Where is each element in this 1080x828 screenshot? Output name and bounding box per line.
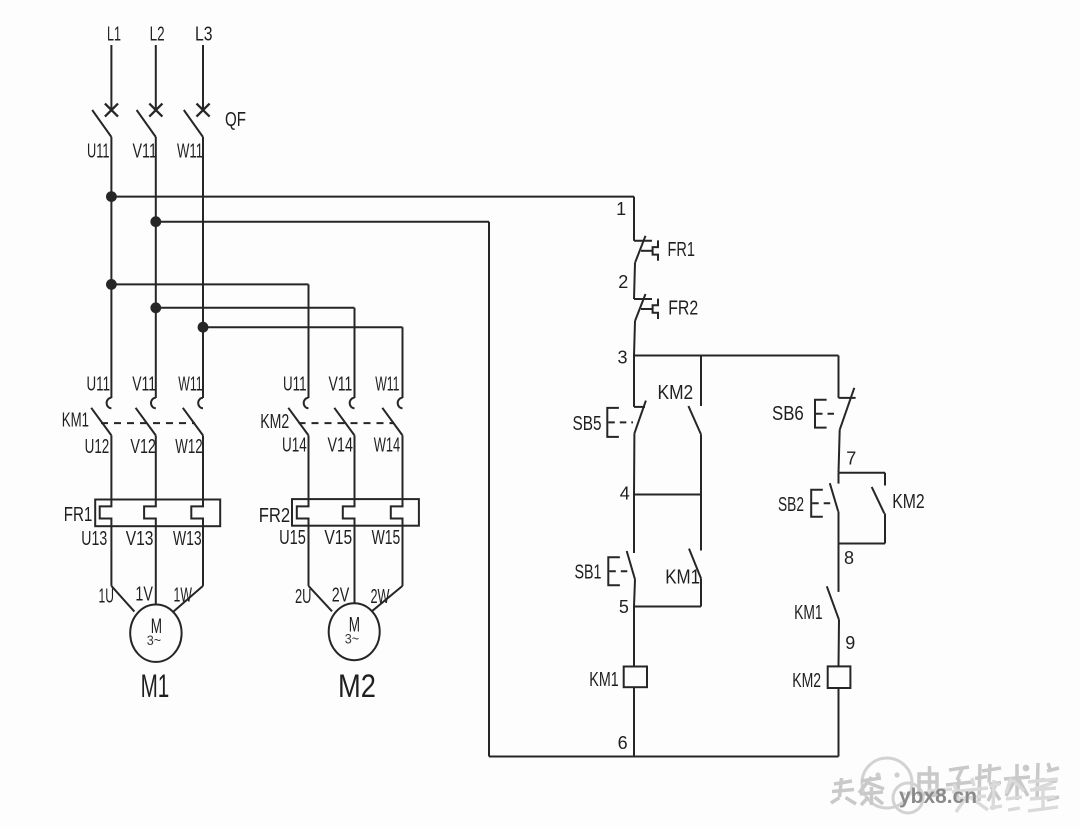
svg-text:KM1: KM1 bbox=[665, 566, 700, 588]
svg-text:U15: U15 bbox=[279, 527, 306, 549]
junction dot B2 bbox=[150, 302, 161, 313]
svg-text:3~: 3~ bbox=[345, 630, 359, 646]
watermark logo circles bbox=[862, 758, 912, 808]
svg-text:W15: W15 bbox=[372, 527, 401, 549]
svg-text:W11: W11 bbox=[375, 374, 399, 396]
push button SB2 NO bbox=[838, 473, 840, 484]
svg-text:1U: 1U bbox=[99, 585, 114, 607]
svg-text:1: 1 bbox=[616, 199, 626, 219]
thermal relay FR2 heater box bbox=[292, 499, 419, 526]
svg-text:2V: 2V bbox=[332, 584, 350, 606]
svg-text:9: 9 bbox=[845, 633, 855, 653]
push button SB1 NO bbox=[627, 551, 635, 579]
wire FR2 to node 3 bbox=[634, 321, 635, 356]
thermal relay FR1 heater box bbox=[95, 500, 220, 527]
svg-text:SB5: SB5 bbox=[573, 413, 602, 435]
watermark word dianzijishukong bbox=[919, 766, 943, 796]
svg-text:W11: W11 bbox=[177, 141, 203, 163]
svg-text:SB6: SB6 bbox=[772, 403, 804, 425]
wire KM1 coil to bottom rail bbox=[633, 687, 635, 756]
FR1 heater element 2 bbox=[144, 500, 156, 527]
wire SB1 to node 5 bbox=[634, 579, 635, 606]
svg-text:V11: V11 bbox=[133, 141, 157, 163]
svg-text:L2: L2 bbox=[150, 24, 165, 46]
junction dot A1 bbox=[106, 191, 117, 202]
svg-text:U12: U12 bbox=[85, 436, 110, 458]
watermark word shiyanshi overlay bbox=[927, 789, 952, 791]
svg-text:U11: U11 bbox=[87, 141, 110, 163]
svg-text:2W: 2W bbox=[371, 586, 390, 608]
wire SB5 to node 4 bbox=[633, 433, 635, 494]
node 3 bus bbox=[634, 355, 839, 357]
contactor KM2 main contact pole 2 bbox=[350, 398, 355, 409]
svg-text:6: 6 bbox=[618, 733, 628, 753]
svg-text:M2: M2 bbox=[338, 668, 376, 704]
junction dot A2 bbox=[106, 279, 117, 290]
wire tap to KM2 phase C bbox=[203, 326, 403, 328]
wire KM2 pole1 to FR2 bbox=[308, 435, 310, 499]
wire FR2 to motor M2 lead 2W bbox=[402, 526, 404, 586]
contactor KM1 main contact pole 1 bbox=[107, 398, 112, 409]
svg-text:2U: 2U bbox=[295, 586, 312, 608]
contactor KM1 main contact pole 3 bbox=[198, 398, 203, 409]
wire neutral return to bottom rail bbox=[156, 221, 489, 223]
SB1 actuator bbox=[608, 557, 620, 585]
push button SB6 NC bbox=[839, 397, 856, 399]
wire KM2 pole3 to FR2 bbox=[402, 435, 404, 499]
wire node3 to SB6 bbox=[838, 356, 840, 398]
svg-text:V15: V15 bbox=[324, 527, 352, 549]
wire FR1 to motor M1 lead 1W bbox=[202, 526, 204, 586]
svg-text:7: 7 bbox=[846, 448, 856, 468]
thermal relay FR1 NC contact bbox=[634, 240, 652, 242]
wire phase C vertical to KM1 bbox=[202, 137, 204, 398]
FR1 heater element 1 bbox=[100, 500, 112, 527]
svg-text:5: 5 bbox=[619, 597, 629, 617]
svg-text:ybx8.cn: ybx8.cn bbox=[899, 785, 977, 808]
FR2 heater element 2 bbox=[343, 500, 355, 527]
contact KM2 auxiliary NO (parallel SB5) bbox=[700, 356, 702, 407]
svg-text:1W: 1W bbox=[174, 584, 192, 606]
svg-text:V11: V11 bbox=[132, 374, 156, 396]
SB6 actuator bbox=[815, 400, 827, 428]
svg-text:1V: 1V bbox=[135, 583, 153, 605]
motor M2 circle bbox=[329, 603, 380, 660]
contact KM1 auxiliary NO (parallel SB1) bbox=[700, 495, 702, 551]
svg-text:KM2: KM2 bbox=[892, 491, 924, 513]
svg-text:4: 4 bbox=[620, 484, 630, 504]
junction dot C1 bbox=[198, 322, 209, 333]
FR2 heater element 3 bbox=[391, 500, 403, 527]
svg-text:3~: 3~ bbox=[147, 632, 161, 648]
node 4 bus bbox=[634, 494, 701, 496]
parallel group bottom bar bbox=[839, 543, 886, 545]
wire phase A vertical to KM1 bbox=[110, 137, 112, 398]
contactor KM1 main contact pole 2 bbox=[151, 398, 156, 409]
svg-text:KM1: KM1 bbox=[589, 669, 618, 691]
wire FR1 to motor M1 lead 1U bbox=[110, 526, 112, 586]
bottom rail bbox=[489, 756, 839, 758]
svg-text:U11: U11 bbox=[87, 374, 111, 396]
KM1 mechanical linkage dashed bbox=[101, 422, 195, 424]
motor M1 circle bbox=[130, 605, 181, 662]
svg-text:W14: W14 bbox=[374, 435, 401, 457]
svg-text:KM1: KM1 bbox=[62, 410, 89, 432]
wire KM2 coil to bottom rail bbox=[838, 688, 840, 757]
wire FR1 to motor M1 lead 1V bbox=[155, 526, 157, 604]
circuit breaker QF pole 1 bbox=[110, 45, 112, 110]
contactor coil KM1 bbox=[624, 667, 647, 688]
svg-text:3: 3 bbox=[618, 347, 628, 367]
SB2 actuator bbox=[811, 490, 823, 517]
KM2 mechanical linkage dashed bbox=[299, 422, 395, 424]
push button SB5 NC bbox=[634, 406, 645, 408]
wire bus to control circuit node 1 bbox=[111, 196, 634, 198]
contactor KM2 main contact pole 1 bbox=[304, 398, 309, 409]
svg-text:W13: W13 bbox=[173, 528, 202, 550]
FR2 heater element 1 bbox=[297, 500, 309, 527]
svg-text:L1: L1 bbox=[107, 24, 121, 46]
svg-text:V13: V13 bbox=[126, 528, 154, 550]
wire KM1 pole2 to FR1 bbox=[155, 435, 157, 499]
svg-text:2: 2 bbox=[618, 272, 628, 292]
svg-text:V14: V14 bbox=[328, 435, 354, 457]
svg-text:W12: W12 bbox=[175, 436, 202, 458]
svg-text:V11: V11 bbox=[329, 374, 353, 396]
svg-text:U14: U14 bbox=[282, 435, 307, 457]
SB5 actuator bbox=[607, 408, 619, 437]
wire node3 to SB5 bbox=[633, 356, 635, 407]
junction dot B1 bbox=[150, 216, 161, 227]
wire FR2 to motor M2 lead 2U bbox=[308, 526, 310, 586]
node 5 bus bbox=[634, 606, 701, 608]
svg-text:8: 8 bbox=[844, 548, 854, 568]
wire FR2 to motor M2 lead 2V bbox=[354, 526, 356, 604]
svg-text:KM2: KM2 bbox=[658, 382, 694, 404]
wire FR1 to FR2 bbox=[634, 263, 635, 299]
svg-text:KM2: KM2 bbox=[792, 670, 821, 692]
svg-text:U13: U13 bbox=[81, 528, 107, 550]
wire SB6 to node 7 bbox=[839, 430, 840, 473]
svg-text:FR2: FR2 bbox=[259, 505, 291, 527]
svg-text:W11: W11 bbox=[178, 374, 202, 396]
svg-text:FR1: FR1 bbox=[64, 504, 93, 526]
contactor KM2 main contact pole 3 bbox=[398, 398, 403, 409]
wire KM2 pole2 to FR2 bbox=[354, 435, 356, 499]
svg-text:QF: QF bbox=[225, 109, 246, 131]
contactor coil KM2 bbox=[828, 666, 851, 688]
watermark word toutiao bbox=[831, 778, 856, 804]
svg-text:SB2: SB2 bbox=[778, 494, 804, 516]
wire KM1 pole3 to FR1 bbox=[202, 435, 204, 499]
svg-text:KM2: KM2 bbox=[260, 411, 289, 433]
svg-text:U11: U11 bbox=[283, 374, 307, 396]
wire tap to KM2 phase A bbox=[111, 283, 308, 285]
wire phase B vertical to KM1 bbox=[155, 137, 157, 398]
parallel group top bar bbox=[839, 472, 886, 474]
circuit breaker QF pole 3 bbox=[202, 45, 204, 110]
svg-text:V12: V12 bbox=[130, 436, 156, 458]
thermal relay FR2 NC contact bbox=[634, 298, 652, 300]
svg-text:FR1: FR1 bbox=[668, 239, 696, 261]
svg-text:KM1: KM1 bbox=[794, 602, 823, 624]
wire tap to KM2 phase B bbox=[156, 307, 355, 309]
circuit breaker QF pole 2 bbox=[155, 45, 157, 110]
contact KM2 auxiliary NO (parallel SB2) bbox=[884, 473, 886, 486]
svg-text:L3: L3 bbox=[195, 24, 213, 46]
wire KM1 pole1 to FR1 bbox=[110, 435, 112, 499]
svg-text:SB1: SB1 bbox=[575, 561, 602, 583]
wire node5 to KM1 coil bbox=[633, 607, 635, 667]
contact KM1 interlock NO bbox=[827, 586, 839, 620]
wire node8 to KM1 interlock bbox=[838, 544, 840, 592]
svg-text:FR2: FR2 bbox=[668, 297, 698, 319]
wire KM1 interlock to node 9 bbox=[838, 620, 841, 667]
FR1 heater element 3 bbox=[191, 500, 203, 527]
svg-text:M1: M1 bbox=[141, 668, 170, 704]
wire node4 to SB1 bbox=[633, 495, 635, 554]
